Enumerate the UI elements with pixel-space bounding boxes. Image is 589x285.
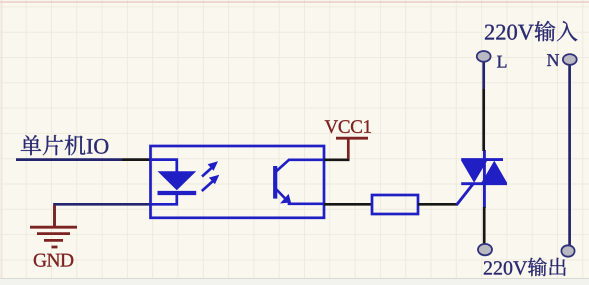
label 220V输入 xyxy=(485,21,577,41)
wire N input to output terminal xyxy=(568,62,571,247)
wire collector to VCC1 xyxy=(324,158,350,161)
terminal N output xyxy=(561,245,574,256)
optocoupler U1 body xyxy=(151,146,325,218)
ground label GND xyxy=(34,254,73,267)
power VCC1 symbol xyxy=(336,138,368,159)
LED inside optocoupler xyxy=(151,160,196,205)
wire emitter to resistor R1 xyxy=(324,203,372,206)
triac Q1 xyxy=(457,150,508,208)
label L xyxy=(497,56,506,68)
resistor R1 xyxy=(372,195,418,214)
label 220V输出 xyxy=(484,258,566,277)
terminal L input xyxy=(477,51,491,62)
ground GND symbol xyxy=(30,205,77,247)
wire resistor R1 to triac gate xyxy=(418,203,458,206)
label N xyxy=(547,54,559,66)
wire L input to triac MT2 xyxy=(482,61,485,151)
phototransistor inside optocoupler xyxy=(275,160,323,204)
net label 单片机IO xyxy=(21,135,109,155)
terminal L output xyxy=(478,244,492,255)
wire triac MT1 to output terminal xyxy=(483,207,486,245)
wire 单片机IO to optocoupler anode xyxy=(16,158,151,161)
LED emission arrow 2 xyxy=(202,175,220,191)
wire optocoupler cathode to ground xyxy=(55,204,152,226)
LED emission arrow 1 xyxy=(202,161,218,176)
power label VCC1 xyxy=(325,120,371,133)
terminal N input xyxy=(563,54,577,65)
